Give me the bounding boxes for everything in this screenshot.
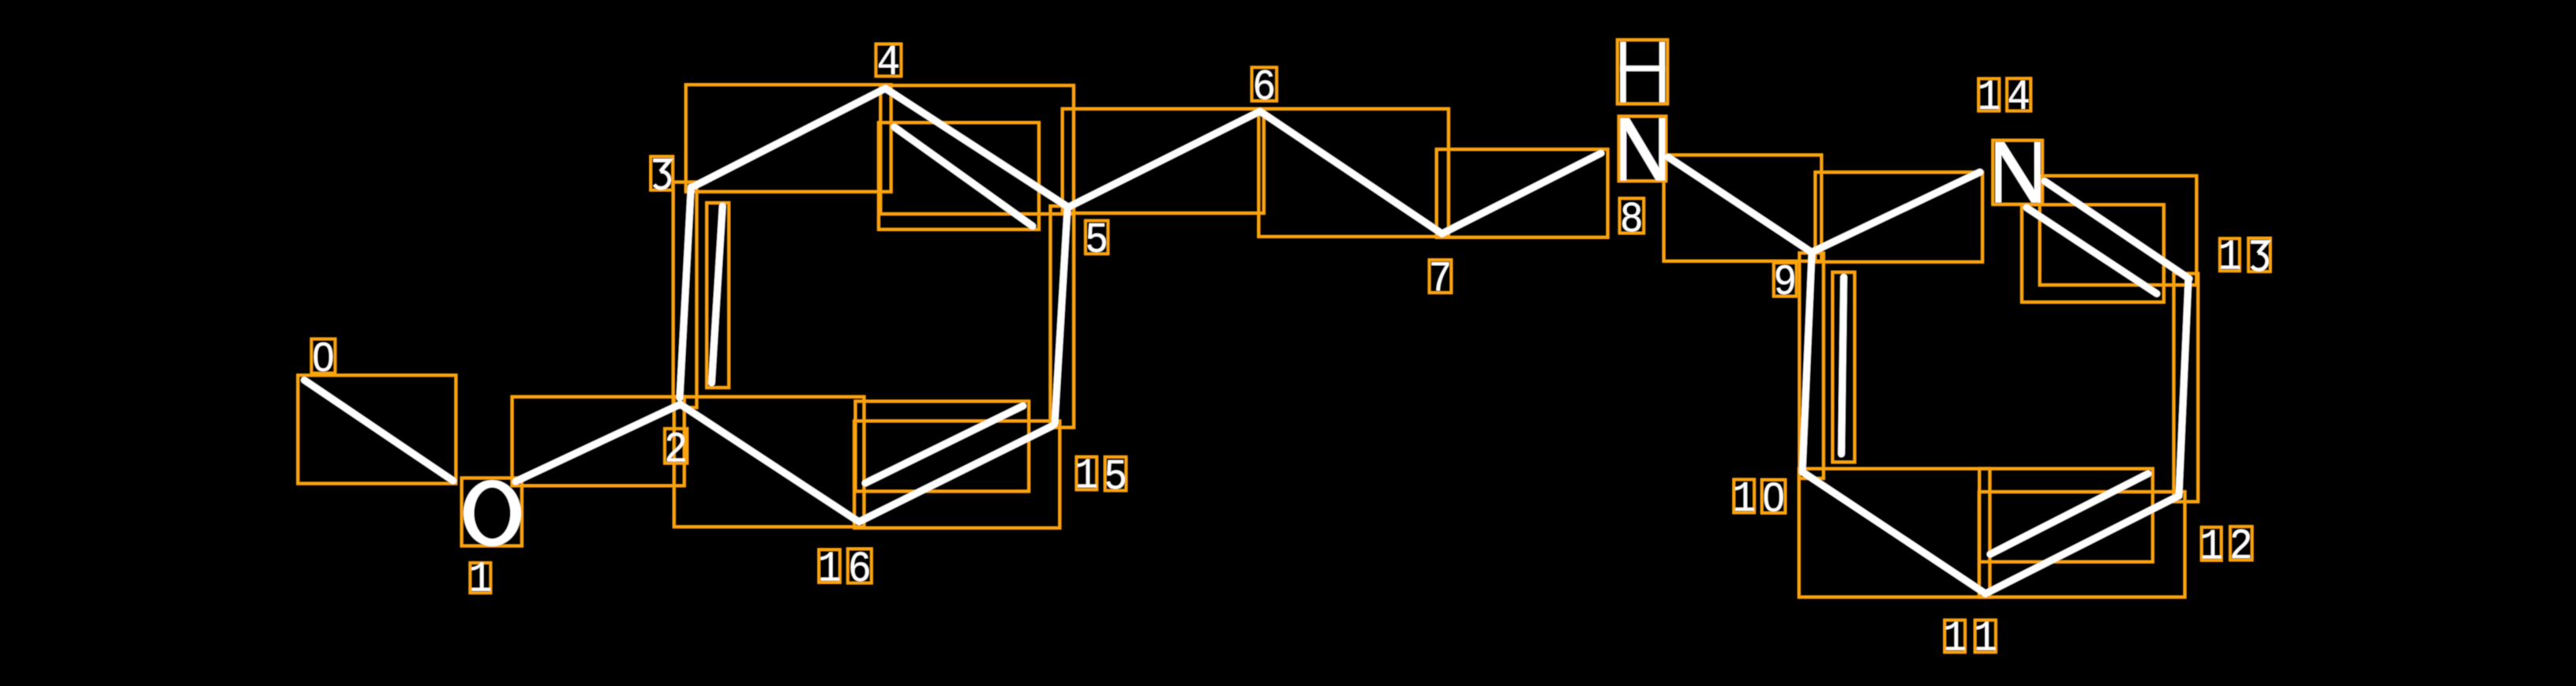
bond 6 (1260, 111, 1442, 234)
bond 3 (680, 187, 691, 398)
svg-text:1: 1 (1074, 452, 1098, 501)
label 14 digit 1 box (1978, 79, 1999, 111)
label 3 digit (653, 160, 669, 171)
bond 2 (516, 404, 681, 482)
atom N14 box (1993, 141, 2042, 204)
atom H box (1618, 40, 1667, 104)
bond 3 inner (711, 206, 722, 383)
bond 15 box (854, 421, 1059, 528)
svg-text:9: 9 (1773, 258, 1797, 308)
svg-text:4: 4 (877, 38, 901, 88)
svg-text:1: 1 (1943, 614, 1967, 664)
label 10 digit 0 box (1762, 480, 1786, 513)
svg-text:4: 4 (2007, 73, 2030, 122)
label 16 digit 6 box (848, 549, 872, 583)
bond 0 (305, 380, 454, 482)
label 13 digit 3 digit (2251, 242, 2267, 253)
bond 13 inner (2027, 208, 2157, 294)
bond 13 inner box (2022, 204, 2164, 302)
label 12 digit 2 box (2230, 527, 2252, 560)
svg-text:2: 2 (2229, 522, 2253, 572)
bond 9-14 (1814, 172, 1980, 251)
atom N8 box (1619, 116, 1667, 181)
atom H of NH (1620, 42, 1625, 103)
svg-text:1: 1 (1732, 474, 1756, 524)
label 12 digit 1 box (2202, 527, 2222, 560)
bond 11 (1804, 473, 1985, 594)
svg-text:1: 1 (1978, 73, 2001, 122)
bond 10 inner box (1832, 272, 1854, 463)
bond 16 (684, 407, 859, 522)
bond 8-9 box (1664, 155, 1822, 261)
bond 0 box (298, 375, 456, 483)
bond 3-4 (692, 88, 886, 187)
bond 13-12 (2179, 279, 2188, 496)
svg-text:8: 8 (1620, 195, 1644, 245)
bond 12 box (1979, 492, 2185, 597)
atom O (index 1) (463, 480, 521, 546)
bond 4 (886, 88, 1070, 208)
bond 4 inner box (879, 122, 1039, 229)
label 9 box (1774, 263, 1797, 296)
label 8 box (1620, 198, 1644, 233)
label 11 digit 1b box (1975, 620, 1996, 653)
svg-text:1: 1 (469, 555, 493, 605)
bond 12 inner (1990, 474, 2148, 554)
svg-text:6: 6 (1252, 62, 1276, 112)
svg-text:0: 0 (313, 335, 335, 380)
label 13 digit 1 box (2220, 238, 2240, 271)
bond 7 box (1437, 149, 1608, 238)
label 15 digit 5 box (1105, 457, 1127, 491)
bond 4 box (880, 85, 1074, 214)
label 16 digit 1 box (819, 549, 840, 583)
svg-text:1: 1 (2218, 233, 2242, 283)
bond 8-9 (1668, 157, 1811, 252)
svg-text:7: 7 (1429, 254, 1453, 304)
bond 9-14 box (1815, 172, 1982, 262)
label 4 box (876, 44, 902, 77)
label 14 digit 4 box (2007, 78, 2030, 111)
bond 5-15 box (1051, 206, 1074, 428)
bond 13-12 box (2174, 274, 2199, 502)
bond 3 inner box (707, 203, 729, 388)
bond 5 (1069, 111, 1260, 207)
svg-text:6: 6 (848, 545, 872, 594)
bond 10 inner (1842, 277, 1844, 454)
bond 15 inner box (856, 401, 1029, 491)
label 6 box (1252, 67, 1277, 100)
bond 3-4 box (686, 84, 891, 192)
bond 4 inner (894, 127, 1033, 227)
bond 6 box (1258, 109, 1449, 237)
label 13 digit 3 box (2248, 238, 2270, 272)
atom N8 of NH (1621, 118, 1666, 181)
bond 3 box (673, 182, 697, 408)
bond 5-15 (1055, 210, 1067, 424)
bond 13 box (2040, 176, 2197, 285)
label 0 box (312, 339, 336, 373)
label 10 digit 1 box (1734, 479, 1754, 512)
bond 10 (1802, 254, 1812, 473)
label 7 box (1430, 260, 1452, 293)
svg-text:5: 5 (1104, 452, 1127, 502)
svg-text:1: 1 (818, 544, 842, 594)
svg-text:1: 1 (1974, 614, 1997, 664)
label 2 box (665, 429, 687, 463)
atom N14 ring nitrogen (1996, 142, 2041, 203)
label 5 box (1086, 221, 1108, 254)
bond 16 box (674, 397, 864, 527)
label 11 digit 1a box (1944, 620, 1965, 653)
bond 12 (1985, 496, 2179, 594)
bond 5 box (1063, 109, 1264, 213)
bond 2 box (512, 397, 684, 486)
atom O box (462, 478, 522, 546)
svg-text:1: 1 (2199, 522, 2223, 572)
bond 11 box (1799, 469, 1990, 598)
bond 15 (860, 426, 1052, 522)
label 3 box (651, 156, 673, 189)
label 1 box (471, 563, 491, 593)
bond 10 box (1799, 253, 1824, 479)
bond 13 (2045, 182, 2189, 279)
bond 12 inner box (1979, 469, 2153, 562)
svg-text:2: 2 (664, 425, 688, 474)
svg-text:0: 0 (1763, 474, 1785, 520)
label 15 digit 1 box (1077, 457, 1097, 489)
bond 15 inner (865, 406, 1023, 483)
svg-text:5: 5 (1085, 216, 1108, 265)
bond 7 (1442, 153, 1602, 234)
